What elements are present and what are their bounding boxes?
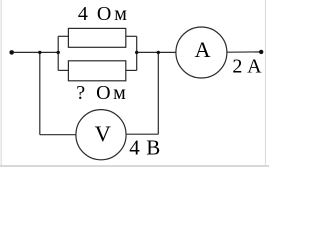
svg-text:V: V bbox=[95, 121, 111, 146]
svg-text:?Ом: ?Ом bbox=[76, 82, 126, 104]
wire: resistor R2 right stub bbox=[126, 69, 137, 71]
wire: voltmeter left horizontal bbox=[40, 134, 76, 136]
wire: resistor R1 right stub bbox=[126, 35, 137, 37]
wire: stub to resistor R2 left bbox=[58, 69, 68, 71]
svg-text:2А: 2А bbox=[232, 56, 262, 78]
right terminal node bbox=[259, 50, 263, 54]
frame right border bbox=[265, 0, 266, 166]
wire: stub to resistor R1 left bbox=[58, 35, 68, 37]
svg-text:А: А bbox=[195, 37, 211, 62]
wire: ammeter to right terminal bbox=[227, 51, 261, 53]
voltmeter circle bbox=[76, 110, 126, 160]
junction node: parallel branch left bbox=[57, 51, 60, 54]
wire: voltmeter branch right vertical bbox=[157, 52, 159, 134]
frame bottom border bbox=[0, 165, 269, 167]
wire: voltmeter branch left vertical bbox=[39, 52, 41, 134]
resistor R2 (? Om) bbox=[68, 61, 125, 81]
svg-text:4Ом: 4Ом bbox=[78, 3, 127, 25]
junction node: parallel branch right bbox=[135, 51, 138, 54]
left terminal node bbox=[9, 50, 14, 55]
resistor R1 (4 Om) bbox=[68, 28, 125, 47]
wire: voltmeter right horizontal bbox=[126, 133, 158, 135]
wire: right branch vertical bbox=[136, 36, 138, 70]
ammeter circle bbox=[176, 27, 227, 78]
wire: left branch vertical bbox=[57, 36, 59, 70]
junction node: voltmeter tap right bbox=[157, 51, 160, 54]
junction node: voltmeter tap left bbox=[38, 51, 41, 54]
wire: right branch to ammeter bbox=[137, 51, 176, 53]
wire: left terminal to left branch bbox=[12, 51, 59, 53]
frame left border bbox=[1, 0, 2, 166]
